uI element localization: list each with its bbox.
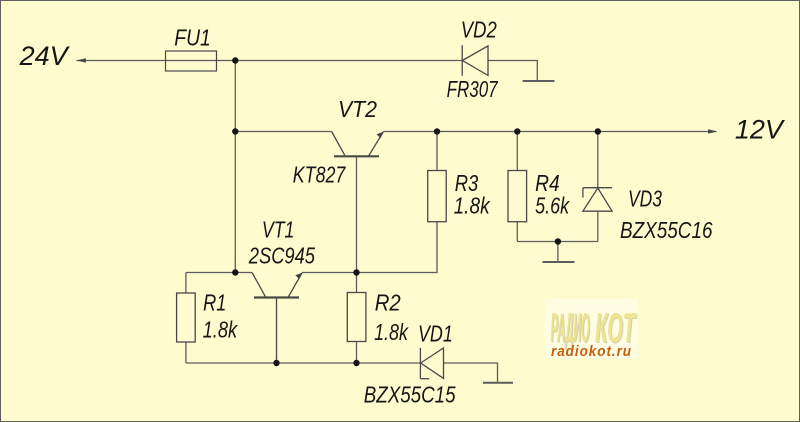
svg-text:FR307: FR307 bbox=[447, 76, 499, 102]
svg-text:BZX55C15: BZX55C15 bbox=[364, 381, 456, 407]
node dot R2 bottom bbox=[353, 360, 359, 366]
resistor R3 bbox=[428, 171, 447, 222]
wire VT2 collector bbox=[235, 131, 331, 133]
fuse FU1 bbox=[166, 51, 217, 71]
wire left column node bbox=[234, 61, 236, 273]
svg-text:12V: 12V bbox=[735, 114, 786, 144]
wire top rail 24V bbox=[76, 60, 462, 62]
wire R4/VD3 bottom link bbox=[517, 241, 598, 243]
svg-text:VT1: VT1 bbox=[262, 217, 295, 243]
wire VD1 cathode to ground drop bbox=[444, 363, 498, 383]
resistor R4 bbox=[508, 171, 527, 222]
svg-text:VD2: VD2 bbox=[461, 16, 497, 42]
ground (VD1) bbox=[483, 382, 513, 384]
node dot R1/VT1 collector bbox=[232, 269, 238, 275]
wire R4 top stem bbox=[516, 132, 518, 171]
wire R1 top stem bbox=[185, 273, 187, 294]
diode VD2 bbox=[462, 45, 488, 76]
transistor VT2 emitter arrow bbox=[377, 132, 384, 139]
transistor VT1 emitter arrow bbox=[295, 273, 302, 280]
resistor R2 bbox=[347, 293, 366, 342]
svg-text:1.8k: 1.8k bbox=[203, 317, 239, 343]
wire mid ground drop bbox=[557, 242, 559, 263]
node dot R4 top bbox=[514, 128, 520, 134]
node dot VT2 collector bbox=[232, 128, 238, 134]
wire VD3 top stem bbox=[597, 132, 599, 188]
transistor VT1 bbox=[252, 273, 302, 364]
svg-text:radiokot.ru: radiokot.ru bbox=[551, 344, 632, 360]
svg-text:VT2: VT2 bbox=[338, 96, 377, 122]
svg-text:24V: 24V bbox=[19, 41, 71, 71]
wire 12V rail bbox=[383, 131, 716, 133]
svg-text:5.6k: 5.6k bbox=[535, 193, 570, 219]
node dot VT1 base bbox=[273, 360, 279, 366]
ground (mid R4/VD3) bbox=[543, 261, 575, 263]
node dot VD3 top bbox=[595, 128, 601, 134]
wire node row left bbox=[186, 272, 252, 274]
wire node row right bbox=[302, 222, 437, 273]
svg-text:BZX55C16: BZX55C16 bbox=[620, 217, 713, 243]
wire VT2 base lead bbox=[356, 156, 358, 272]
svg-text:KT827: KT827 bbox=[293, 161, 346, 187]
zener VD3 bbox=[583, 188, 612, 212]
ground (VD2) bbox=[523, 80, 555, 82]
resistor R1 bbox=[177, 293, 196, 342]
svg-text:VD3: VD3 bbox=[628, 186, 662, 212]
svg-text:R1: R1 bbox=[203, 289, 226, 315]
wire VD2 anode to ground drop bbox=[488, 61, 537, 82]
wire bottom rail bbox=[186, 362, 421, 364]
node dot FU1 output bbox=[232, 57, 238, 63]
wire R2 bottom stem bbox=[356, 342, 358, 364]
node dot R3 top bbox=[434, 128, 440, 134]
wire R1 bottom stem bbox=[185, 342, 187, 363]
wire R4 bottom stem bbox=[516, 222, 518, 242]
wire VD3 anode stem bbox=[597, 211, 599, 241]
svg-text:1.8k: 1.8k bbox=[454, 193, 491, 219]
node dot R4/VD3 bottom bbox=[555, 238, 561, 244]
wire R2 top stem bbox=[356, 273, 358, 293]
svg-text:FU1: FU1 bbox=[174, 24, 211, 50]
arrow 24V input bbox=[76, 58, 85, 62]
svg-text:2SC945: 2SC945 bbox=[248, 243, 315, 269]
wire R3 top stem bbox=[436, 132, 438, 171]
zener VD1 bbox=[420, 348, 443, 379]
node dot VT2 base/VT1 emitter/R2 bbox=[353, 269, 359, 275]
arrow 12V output bbox=[708, 129, 717, 133]
transistor VT2 bbox=[332, 132, 384, 157]
logo watermark panel bbox=[545, 299, 638, 358]
svg-text:1.8k: 1.8k bbox=[374, 319, 409, 345]
svg-text:VD1: VD1 bbox=[418, 321, 453, 347]
svg-text:R2: R2 bbox=[375, 289, 401, 315]
